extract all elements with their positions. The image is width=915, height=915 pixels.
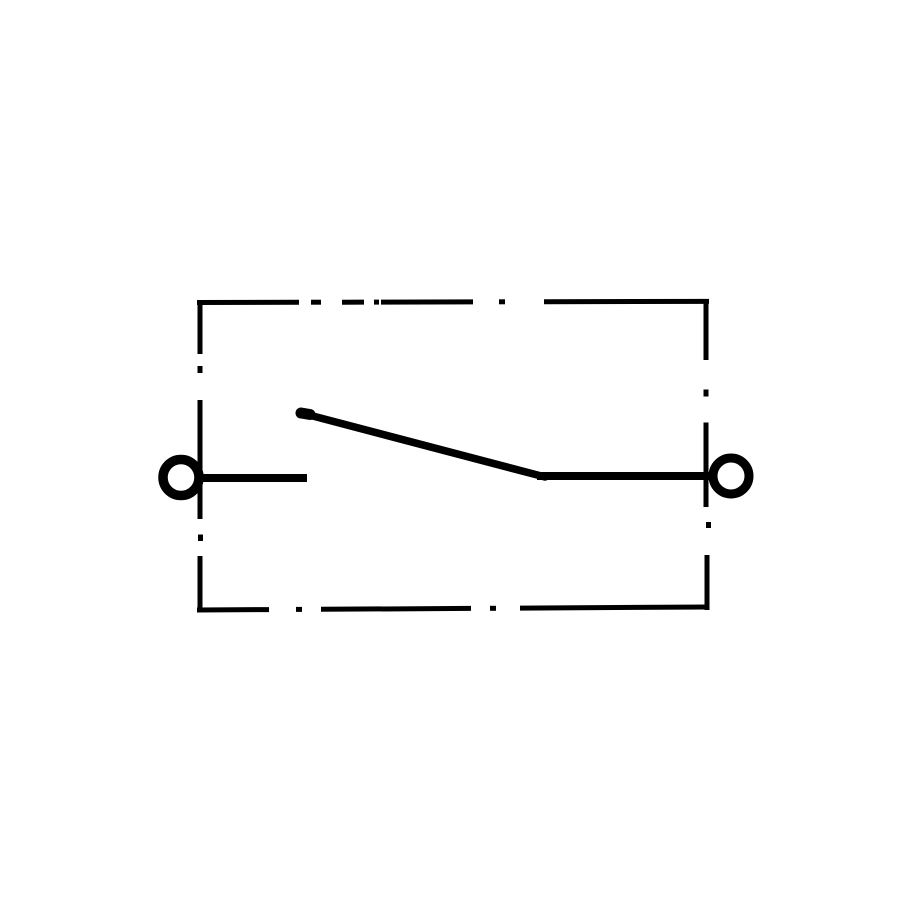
switch arm (moving contact, open) <box>309 415 545 477</box>
wire from switch contact to terminal 2 <box>537 472 710 480</box>
enclosure boundary left edge (dash-dot) <box>198 300 204 612</box>
terminal 1 left ring <box>163 460 199 496</box>
wire from terminal 1 to fixed contact <box>200 474 307 482</box>
enclosure boundary top edge (dash-dot) <box>197 301 709 302</box>
enclosure boundary right edge (dash-dot) <box>706 300 709 611</box>
enclosure boundary bottom edge (dash-dot) <box>197 607 709 610</box>
switch arm hinge end blob <box>301 413 310 415</box>
terminal 2 right ring <box>713 458 749 494</box>
